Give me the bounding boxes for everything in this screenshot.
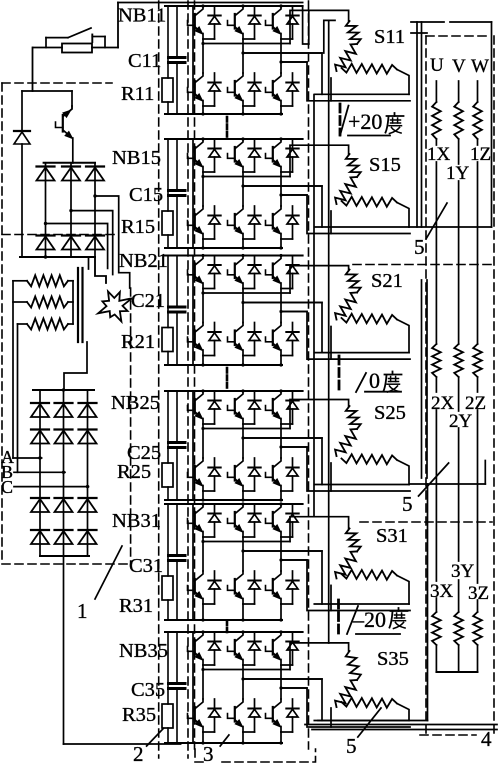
winding U3 (432, 612, 441, 645)
svg-text:NB11: NB11 (118, 5, 166, 27)
capacitor C21 plates (169, 306, 186, 309)
svg-text:W: W (471, 56, 489, 77)
diode D32 (55, 402, 73, 404)
diode D63 (79, 529, 97, 531)
wire S25 input 2 (243, 438, 322, 485)
zigzag resistor 2 (27, 297, 68, 308)
S15 winding c (342, 197, 398, 207)
wire (410, 483, 485, 485)
wire S11 input 1 (290, 10, 349, 43)
wire S31 input 3 (281, 560, 410, 611)
S31 winding a (346, 528, 361, 551)
NB35 bottom IGBT leg2 (236, 699, 243, 708)
S15 winding a (346, 154, 361, 177)
svg-text:NB31: NB31 (112, 510, 161, 532)
NB11 bottom IGBT leg3 (274, 73, 281, 82)
wire S11 input 3 (281, 62, 410, 101)
dashed divider (353, 264, 494, 266)
S15 winding b (335, 177, 357, 204)
bridge II/III column 2 (63, 390, 65, 556)
NB21 leg2 mid wire (242, 289, 244, 323)
box 3 bottom bracket right (222, 749, 316, 762)
wire S21 input 1 (290, 266, 349, 293)
NB35 bottom IGBT leg3 (274, 699, 281, 708)
svg-text:NB35: NB35 (119, 640, 168, 662)
transistor V (precharge) (64, 106, 73, 116)
NB21 bottom IGBT leg1 (196, 323, 203, 332)
winding W2 (473, 344, 482, 377)
S11 winding c (342, 64, 398, 74)
NB31 top IGBT leg3 (274, 504, 281, 513)
wire (484, 461, 486, 485)
capacitor C31 plates (169, 554, 186, 557)
NB15 top IGBT leg2 (236, 139, 243, 148)
NB11 leg1 mid wire (202, 39, 204, 73)
svg-text:S35: S35 (377, 648, 409, 670)
svg-text:+20: +20 (348, 109, 382, 134)
NB35 leg3 mid wire (280, 665, 282, 699)
winding W1 (473, 102, 482, 139)
S31 box right (397, 576, 409, 605)
diode D21 (37, 234, 55, 236)
svg-text:5: 5 (414, 235, 425, 259)
S25 box right (397, 460, 409, 485)
NB31 rail leg1 (203, 541, 290, 543)
S35 box bottom (314, 720, 409, 722)
svg-text:S15: S15 (369, 154, 401, 176)
NB21 rail leg1 (203, 292, 290, 294)
NB11 bottom IGBT leg1 (196, 73, 203, 82)
wire (416, 22, 418, 227)
resistor R25 body (162, 463, 173, 487)
resistor right tie (72, 281, 74, 324)
svg-text:C15: C15 (129, 184, 163, 206)
phase angle -20deg (347, 606, 358, 634)
NB15 bottom IGBT leg1 (196, 206, 203, 215)
S35 winding a (346, 651, 361, 680)
NB11 leg2 mid wire (242, 39, 244, 73)
NB25 leg1 mid wire (202, 424, 204, 458)
NB15 rail leg2 (243, 185, 322, 187)
diode D31 (31, 402, 49, 404)
capacitor C25 plates (169, 441, 186, 444)
glyph degree (392, 372, 394, 375)
S35 winding b (335, 680, 357, 707)
NB25 left bus link (192, 391, 194, 500)
wire (427, 484, 429, 721)
wire core to rectifier II (64, 342, 87, 390)
wire (426, 280, 428, 478)
winding U2 (432, 344, 441, 377)
S35 box right (397, 704, 409, 721)
diode D61 (31, 529, 49, 531)
svg-text:2Y: 2Y (449, 411, 473, 432)
NB15 + bus (165, 138, 303, 140)
tap wire a (95, 196, 130, 288)
svg-text:NB15: NB15 (112, 147, 161, 169)
bridge II top bus (33, 389, 94, 391)
capacitor branch wire NB21 (176, 256, 178, 306)
NB31 - bus (165, 619, 282, 621)
NB11 top IGBT leg3 (274, 6, 281, 15)
box 3 bottom bracket left (195, 749, 204, 762)
resistor branch wire NB35 (167, 632, 169, 704)
resistor branch wire NB31 (167, 504, 169, 576)
top feed rail (118, 2, 303, 4)
S11 winding a (346, 21, 361, 44)
wire S15 input 1 (290, 145, 349, 176)
NB21 rail leg2 (243, 302, 322, 304)
wire S21 input 2 (243, 303, 322, 353)
wire S31 link (330, 585, 332, 610)
glyph degree (394, 113, 396, 116)
wire S21 input 3 (281, 312, 410, 360)
wire S25 input 3 (281, 447, 410, 491)
svg-text:1X: 1X (427, 144, 451, 165)
transformer T core (77, 268, 79, 342)
wire fuse to top rail (92, 47, 118, 49)
capacitor branch wire NB25 (176, 391, 178, 441)
NB31 left bus link (192, 504, 194, 620)
continuation marks (226, 117, 229, 122)
wire (308, 11, 310, 44)
svg-text:R35: R35 (122, 704, 156, 726)
dashed box 4 (motor windings) (426, 35, 488, 37)
NB35 - bus (165, 742, 282, 744)
disconnect switch QS (45, 38, 47, 48)
svg-text:–20: –20 (352, 607, 386, 632)
winding V2 (454, 344, 463, 377)
capacitor C11 plates (169, 56, 186, 59)
svg-text:3Z: 3Z (468, 583, 489, 604)
NB25 rail leg2 (243, 437, 322, 439)
S21 box right (397, 320, 409, 353)
NB35 rail leg1 (203, 669, 290, 671)
NB35 leg2 mid wire (242, 665, 244, 699)
NB21 top IGBT leg2 (236, 256, 243, 265)
svg-text:V: V (452, 56, 466, 77)
S15 box right (397, 203, 409, 228)
wire S11 input 2 (243, 53, 322, 94)
NB35 bottom IGBT leg1 (196, 699, 203, 708)
wire (411, 21, 444, 23)
S35 winding c (342, 698, 398, 708)
diode D23 (86, 234, 104, 236)
NB11 leg3 mid wire (280, 39, 282, 73)
star symbol (coupling burst) (98, 291, 132, 321)
dashed box 1 (input rectifier unit) (2, 82, 112, 84)
NB11 top IGBT leg1 (196, 6, 203, 15)
fuse FU (62, 44, 92, 53)
svg-text:C35: C35 (131, 679, 165, 701)
diode D53 (79, 497, 97, 499)
wire S15 input 3 (281, 195, 410, 234)
B line (14, 471, 65, 473)
wire (421, 22, 423, 227)
NB21 bottom IGBT leg3 (274, 323, 281, 332)
NB25 - bus (165, 499, 282, 501)
NB21 leg3 mid wire (280, 289, 282, 323)
bridge I top bus (44, 162, 95, 164)
svg-text:R11: R11 (121, 83, 154, 105)
NB11 - bus (165, 113, 282, 115)
NB21 left bus link (192, 256, 194, 366)
NB25 bottom IGBT leg2 (236, 458, 243, 467)
resistor R11 body (162, 78, 173, 102)
svg-text:R21: R21 (121, 331, 155, 353)
diode D13 (86, 165, 104, 167)
svg-text:3: 3 (203, 742, 214, 764)
svg-text:C31: C31 (129, 555, 163, 577)
NB15 leg1 mid wire (202, 172, 204, 206)
NB21 - bus (165, 364, 282, 366)
phase angle 0deg (356, 373, 366, 392)
NB35 leg1 mid wire (202, 665, 204, 699)
NB35 rail leg3 (281, 687, 307, 689)
capacitor branch wire NB11 (176, 6, 178, 56)
wire U (435, 162, 437, 344)
S25 box bottom (314, 484, 409, 486)
NB11 rail leg3 (281, 61, 307, 63)
NB25 bottom IGBT leg1 (196, 458, 203, 467)
resistor R35 body (162, 704, 173, 728)
wire (409, 226, 492, 228)
svg-text:R25: R25 (117, 461, 151, 483)
NB21 top IGBT leg1 (196, 256, 203, 265)
NB35 top IGBT leg1 (196, 632, 203, 641)
S11 box bottom (314, 93, 409, 95)
NB31 rail leg2 (243, 550, 322, 552)
NB31 top IGBT leg1 (196, 504, 203, 513)
winding V3 (454, 612, 463, 645)
wire up to NB rail (117, 3, 119, 48)
NB35 top IGBT leg2 (236, 632, 243, 641)
diode D11 (37, 165, 55, 167)
NB11 rail leg1 (203, 43, 290, 45)
capacitor branch wire NB35 (176, 632, 178, 682)
capacitor C35 plates (169, 682, 186, 685)
winding W3 (473, 612, 482, 645)
bridge II/III column 3 (87, 390, 89, 556)
NB31 + bus (165, 503, 303, 505)
NB15 rail leg3 (281, 194, 307, 196)
wire top of precharge (22, 90, 72, 92)
svg-text:0: 0 (369, 368, 380, 393)
svg-text:3X: 3X (430, 581, 454, 602)
phase wire b down (17, 324, 19, 472)
diode VD (precharge bypass) (21, 91, 23, 131)
NB25 top IGBT leg3 (274, 391, 281, 400)
inner dashed divider (2, 234, 115, 236)
svg-text:S31: S31 (376, 525, 408, 547)
S11 winding b (335, 44, 357, 71)
wire S35 input 3 (281, 688, 410, 727)
A line (13, 457, 42, 459)
svg-text:R31: R31 (119, 595, 153, 617)
NB21 bottom IGBT leg2 (236, 323, 243, 332)
NB25 bottom IGBT leg3 (274, 458, 281, 467)
NB15 bottom IGBT leg2 (236, 206, 243, 215)
S25 winding b (335, 429, 357, 456)
capacitor C15 plates (169, 189, 186, 192)
wire chain link (313, 95, 315, 517)
wire (421, 280, 423, 478)
NB25 top IGBT leg1 (196, 391, 203, 400)
wire to fuse (33, 47, 62, 49)
zigzag resistor 3 (27, 319, 68, 330)
NB31 leg1 mid wire (202, 537, 204, 571)
dashed box 3 (inverter column) (194, 1, 196, 749)
NB15 bottom IGBT leg3 (274, 206, 281, 215)
wire (312, 729, 497, 731)
NB25 rail leg3 (281, 446, 307, 448)
svg-text:3Y: 3Y (451, 561, 475, 582)
phase wire a down (12, 281, 14, 458)
wire S21 link (330, 327, 332, 360)
NB11 top IGBT leg2 (236, 6, 243, 15)
NB25 + bus (165, 390, 303, 392)
dashed box 2 (power cell column) (158, 1, 160, 758)
S31 winding c (342, 570, 398, 580)
NB31 bottom IGBT leg3 (274, 571, 281, 580)
NB31 bottom IGBT leg1 (196, 571, 203, 580)
wire S11 link (330, 78, 332, 101)
wire chain link top (324, 20, 335, 53)
capacitor branch wire NB31 (176, 504, 178, 554)
S31 box bottom (314, 603, 409, 605)
svg-text:NB21: NB21 (119, 250, 168, 272)
NB25 leg2 mid wire (242, 424, 244, 458)
S25 winding a (346, 406, 361, 429)
S21 winding a (346, 270, 361, 293)
svg-text:C: C (1, 477, 13, 497)
wire U (435, 410, 437, 581)
diode D33 (79, 402, 97, 404)
NB15 - bus (165, 247, 282, 249)
zigzag resistor 1 (27, 275, 68, 286)
DC return wire (63, 556, 65, 744)
NB35 top IGBT leg3 (274, 632, 281, 641)
bridge I column 2 (70, 163, 72, 257)
bus corner down (95, 257, 106, 283)
NB11 left bus link (192, 6, 194, 114)
NB21 top IGBT leg3 (274, 256, 281, 265)
wire (450, 21, 492, 23)
svg-text:C21: C21 (131, 290, 165, 312)
svg-text:1: 1 (77, 599, 88, 623)
diode D42 (55, 428, 73, 430)
S31 winding b (335, 551, 357, 578)
glyph degree (398, 608, 400, 611)
NB25 rail leg1 (203, 428, 290, 430)
svg-text:NB25: NB25 (111, 392, 160, 414)
wire S31 input 2 (243, 551, 322, 604)
wire S35 link (330, 708, 332, 727)
wire S25 input 1 (290, 400, 349, 429)
phase angle +20deg (340, 106, 349, 136)
wire (318, 720, 428, 722)
wire W (477, 410, 479, 583)
bridge II/III column 1 (39, 390, 41, 556)
tap wire c (46, 224, 108, 269)
bridge I column 3 (94, 163, 96, 257)
wire V (458, 428, 460, 561)
NB11 + bus (165, 5, 303, 7)
thick dashes (339, 104, 342, 135)
wire S15 link (330, 211, 332, 234)
diode D22 (62, 234, 80, 236)
NB15 top IGBT leg3 (274, 139, 281, 148)
wire (305, 724, 497, 726)
NB15 leg2 mid wire (242, 172, 244, 206)
wire S35 input 1 (290, 643, 349, 670)
svg-text:2: 2 (133, 742, 144, 764)
svg-text:1Z: 1Z (470, 144, 491, 165)
NB35 + bus (165, 631, 303, 633)
diode D52 (55, 497, 73, 499)
resistor branch wire NB15 (167, 139, 169, 211)
diode D12 (62, 165, 80, 167)
wire S35 input 2 (243, 679, 322, 721)
svg-text:S21: S21 (371, 270, 403, 292)
S11 box right (397, 70, 409, 95)
wire into box 1 (32, 48, 34, 92)
NB21 rail leg3 (281, 311, 307, 313)
NB31 rail leg3 (281, 559, 307, 561)
NB15 leg3 mid wire (280, 172, 282, 206)
svg-text:C11: C11 (128, 50, 161, 72)
diode D51 (31, 497, 49, 499)
winding U1 (432, 102, 441, 139)
wire (303, 6, 309, 44)
resistor branch wire NB21 (167, 256, 169, 328)
wire (491, 22, 493, 227)
resistor branch wire NB25 (167, 391, 169, 463)
S21 winding c (342, 314, 398, 324)
wire chain link (328, 21, 330, 643)
diode D41 (31, 428, 49, 430)
S15 box bottom (314, 226, 409, 228)
NB21 + bus (165, 255, 303, 257)
NB35 rail leg2 (243, 678, 322, 680)
NB15 rail leg1 (203, 176, 290, 178)
dashed divider (360, 521, 492, 523)
svg-text:S11: S11 (374, 26, 405, 48)
svg-text:5: 5 (346, 734, 357, 758)
NB31 top IGBT leg2 (236, 504, 243, 513)
bridge I column 1 (45, 163, 47, 257)
NB11 bottom IGBT leg2 (236, 73, 243, 82)
diode D62 (55, 529, 73, 531)
NB25 top IGBT leg2 (236, 391, 243, 400)
svg-text:4: 4 (481, 727, 492, 751)
winding V1 (454, 102, 463, 139)
svg-text:U: U (430, 55, 444, 76)
NB31 leg3 mid wire (280, 537, 282, 571)
S21 box bottom (314, 352, 409, 354)
wire S15 input 2 (243, 186, 322, 227)
NB15 left bus link (192, 139, 194, 248)
wire W (477, 162, 479, 344)
NB31 bottom IGBT leg2 (236, 571, 243, 580)
svg-text:S25: S25 (374, 402, 406, 424)
S21 winding b (335, 293, 357, 320)
capacitor branch wire NB15 (176, 139, 178, 189)
NB35 left bus link (192, 632, 194, 743)
resistor R21 body (162, 328, 173, 352)
resistor R31 body (162, 576, 173, 600)
NB31 leg2 mid wire (242, 537, 244, 571)
